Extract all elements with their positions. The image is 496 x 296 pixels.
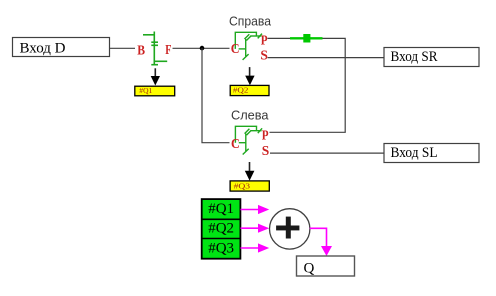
wire loop from green segment down to P of Слева xyxy=(270,38,346,132)
svg-text:#Q2: #Q2 xyxy=(233,87,249,95)
svg-text:P: P xyxy=(262,127,269,142)
svg-text:Справа: Справа xyxy=(229,14,271,28)
svg-text:F: F xyxy=(165,42,171,57)
arrow #Q2 to OR gate xyxy=(241,224,270,233)
wire Вход D to node B xyxy=(110,47,136,49)
svg-text:P: P xyxy=(261,32,268,47)
svg-text:S: S xyxy=(262,143,270,158)
svg-text:#Q3: #Q3 xyxy=(234,182,251,190)
svg-text:C: C xyxy=(231,136,240,151)
svg-text:C: C xyxy=(231,41,240,56)
switch key U1 (vertical transmission gate, driven by #Q1) xyxy=(143,32,167,65)
signal list table (green) xyxy=(202,199,241,259)
junction node dot xyxy=(200,46,205,51)
wire OR gate to box Q xyxy=(310,228,332,256)
arrow from key U1 to label #Q1 xyxy=(151,68,160,85)
value label #Q2 (yellow) xyxy=(230,85,269,95)
wire S Слева to Вход SL xyxy=(270,152,384,154)
arrow from switch U2 to label #Q2 xyxy=(245,67,254,85)
OR gate (circle with plus) xyxy=(270,209,310,249)
svg-text:#Q1: #Q1 xyxy=(208,201,234,217)
svg-text:S: S xyxy=(260,48,268,63)
wire F to junction xyxy=(173,47,230,49)
input box Вход D xyxy=(13,38,110,57)
arrow from switch U3 to label #Q3 xyxy=(245,162,255,181)
svg-text:#Q3: #Q3 xyxy=(208,240,234,256)
svg-text:Вход D: Вход D xyxy=(20,40,66,56)
svg-text:Q: Q xyxy=(304,260,315,276)
input box Вход SL xyxy=(384,144,479,163)
svg-text:#Q2: #Q2 xyxy=(208,221,234,237)
value label #Q3 (yellow) xyxy=(230,181,269,191)
green signal segment with state marker xyxy=(290,34,323,43)
arrow #Q1 to OR gate xyxy=(241,205,270,214)
switch SPDT U3 Слева xyxy=(235,126,262,154)
svg-text:B: B xyxy=(137,42,145,57)
input box Вход SR xyxy=(384,48,479,67)
wire S Справа to Вход SR xyxy=(268,57,385,59)
output box Q xyxy=(297,256,355,276)
svg-text:Вход SR: Вход SR xyxy=(391,49,438,65)
svg-text:Слева: Слева xyxy=(231,108,269,122)
svg-text:#Q1: #Q1 xyxy=(139,87,153,95)
value label #Q1 (yellow) xyxy=(135,86,175,96)
svg-text:Вход SL: Вход SL xyxy=(391,145,438,161)
wire junction down to C of Слева xyxy=(202,48,230,142)
wire P Справа to green signal segment xyxy=(268,37,291,39)
switch SPDT U2 Справа xyxy=(235,32,262,60)
arrow #Q3 to OR gate xyxy=(241,243,270,252)
